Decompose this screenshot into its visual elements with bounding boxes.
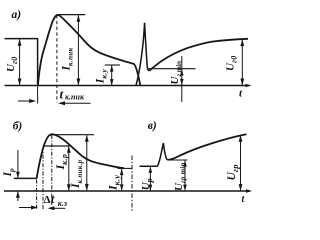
svg-text:t: t — [51, 191, 55, 206]
svg-text:в): в) — [148, 120, 157, 132]
svg-text:к.з: к.з — [58, 199, 67, 208]
svg-text:Δ: Δ — [44, 194, 51, 206]
svg-text:t: t — [60, 87, 64, 102]
svg-text:к.пик: к.пик — [65, 93, 85, 102]
svg-text:а): а) — [12, 9, 22, 21]
svg-text:б): б) — [13, 120, 23, 132]
